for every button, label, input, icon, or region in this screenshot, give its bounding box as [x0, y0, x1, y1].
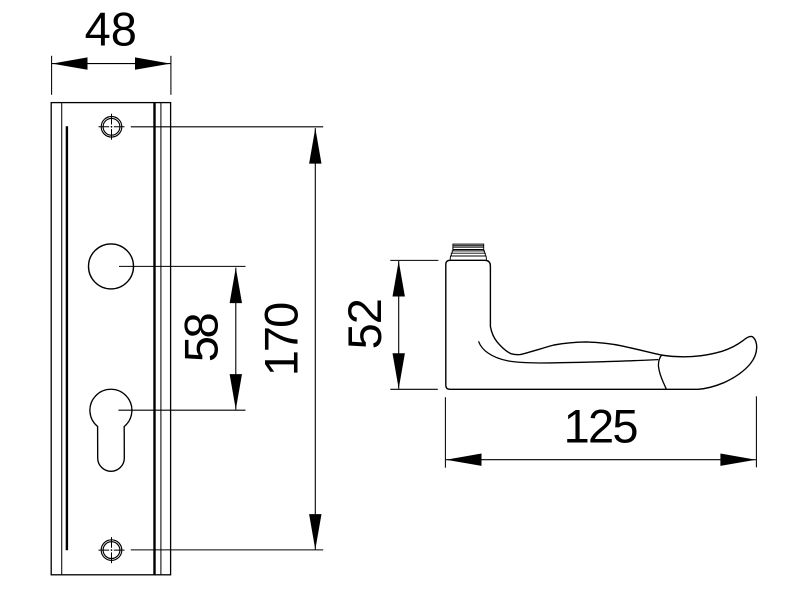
cylinder hole (round hole): [89, 244, 134, 289]
dimension 48 extension line right: [170, 56, 172, 95]
top screw hole centerlines: [99, 114, 125, 140]
handle grip underside curve: [479, 341, 659, 363]
leader line from cylinder hole: [119, 265, 246, 267]
euro profile keyhole: [90, 389, 132, 471]
lever handle outline (side view): [446, 260, 757, 389]
dimension 125 extension line left: [444, 397, 446, 468]
dimension 125 line: [446, 459, 756, 461]
dimension 125 extension line right: [755, 396, 757, 467]
dimension 48 left arrowhead: [52, 57, 88, 69]
bottom screw hole centerlines: [99, 537, 125, 563]
plate left thick profile line: [66, 126, 68, 550]
dimension 58 line: [235, 268, 237, 410]
handle seam line at grip end: [658, 355, 666, 389]
dimension 170 bottom arrowhead: [309, 514, 321, 550]
leader line from keyhole: [118, 409, 245, 411]
svg-text:125: 125: [564, 400, 638, 453]
dimension 58 bottom arrowhead: [230, 374, 242, 410]
plate left inner thin line: [61, 103, 63, 575]
dimension 48 line: [52, 63, 171, 65]
svg-text:58: 58: [174, 314, 227, 363]
dimension 52 top arrowhead: [393, 261, 405, 297]
dimension 48 extension line left: [51, 56, 53, 95]
svg-text:170: 170: [255, 303, 308, 376]
dimension 125 left arrowhead: [446, 454, 482, 466]
dimension 52 bottom arrowhead: [393, 353, 405, 389]
dimension 52 extension line top: [390, 259, 438, 261]
leader line from bottom screw hole: [131, 549, 323, 551]
dimension 170 line: [314, 128, 316, 549]
plate right thick profile line: [153, 103, 155, 575]
backplate outline (front view, 48x170 plate): [51, 103, 170, 575]
dimension 170 top arrowhead: [309, 128, 321, 164]
dimension 125 right arrowhead: [720, 454, 756, 466]
top screw hole: [101, 117, 122, 138]
bottom screw hole: [101, 540, 122, 561]
dimension 52 line: [398, 261, 400, 389]
dimension 52 extension line bottom: [390, 388, 438, 390]
svg-text:52: 52: [338, 299, 391, 349]
svg-text:48: 48: [85, 3, 137, 56]
dimension 48 right arrowhead: [135, 57, 171, 69]
plate right inner thin line: [160, 103, 162, 575]
threaded spindle stub: outline: [450, 244, 486, 260]
leader line from top screw hole: [131, 126, 323, 128]
spindle thread lines: [451, 246, 487, 256]
dimension 58 top arrowhead: [230, 268, 242, 304]
